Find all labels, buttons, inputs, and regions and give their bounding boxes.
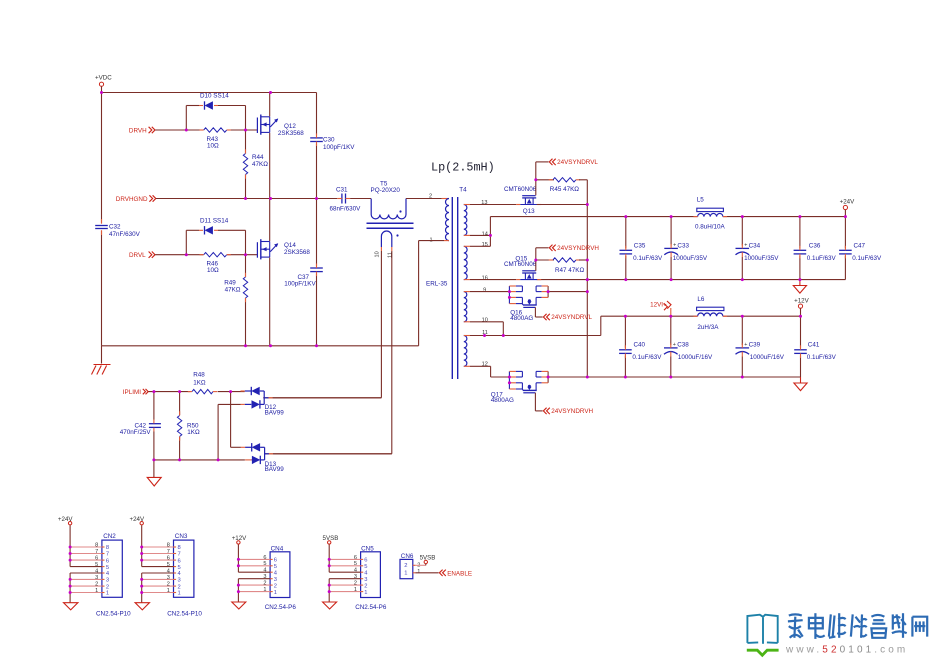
svg-text:100pF/1KV: 100pF/1KV <box>323 144 355 151</box>
svg-text:+: + <box>673 342 676 348</box>
svg-text:8: 8 <box>167 542 170 548</box>
svg-text:CN5: CN5 <box>361 546 374 553</box>
svg-text:47nF/630V: 47nF/630V <box>109 231 141 238</box>
svg-text:CN4: CN4 <box>271 546 284 553</box>
svg-text:1000uF/16V: 1000uF/16V <box>750 354 785 361</box>
svg-text:0.1uF/63V: 0.1uF/63V <box>807 255 837 262</box>
svg-text:5: 5 <box>95 562 98 568</box>
svg-text:2: 2 <box>263 581 266 587</box>
svg-text:R45 47KΩ: R45 47KΩ <box>550 186 580 193</box>
svg-text:www.520101.com: www.520101.com <box>785 644 908 655</box>
svg-text:Q13: Q13 <box>523 208 535 215</box>
svg-text:Lp(2.5mH): Lp(2.5mH) <box>431 161 495 175</box>
svg-text:BAV99: BAV99 <box>265 410 285 417</box>
svg-text:2SK3568: 2SK3568 <box>278 130 304 137</box>
svg-text:DRVH: DRVH <box>129 127 147 134</box>
svg-text:3: 3 <box>95 575 98 581</box>
svg-text:2: 2 <box>274 583 277 589</box>
svg-text:CN3: CN3 <box>175 533 188 540</box>
svg-text:4: 4 <box>106 571 110 577</box>
svg-text:CN2: CN2 <box>103 533 116 540</box>
svg-text:4: 4 <box>178 571 182 577</box>
svg-text:1: 1 <box>274 590 277 596</box>
svg-text:ENABLE: ENABLE <box>447 570 472 577</box>
svg-text:L6: L6 <box>697 296 705 303</box>
svg-text:0.1uF/63V: 0.1uF/63V <box>852 255 882 262</box>
svg-text:8: 8 <box>95 542 98 548</box>
svg-text:5: 5 <box>178 565 181 571</box>
svg-text:24VSYNDRVL: 24VSYNDRVL <box>551 314 592 321</box>
svg-text:6: 6 <box>364 558 367 564</box>
svg-text:CN2.54-P10: CN2.54-P10 <box>167 610 202 617</box>
svg-text:D10 SS14: D10 SS14 <box>200 93 229 100</box>
svg-text:1: 1 <box>178 591 181 597</box>
svg-text:CN2.54-P10: CN2.54-P10 <box>96 610 131 617</box>
svg-text:11: 11 <box>387 252 393 258</box>
svg-text:IPLIMI: IPLIMI <box>123 389 141 396</box>
svg-text:CN2.54-P6: CN2.54-P6 <box>355 604 387 611</box>
svg-text:10: 10 <box>375 251 381 257</box>
svg-text:47KΩ: 47KΩ <box>252 161 268 168</box>
svg-text:3: 3 <box>106 578 109 584</box>
svg-text:5: 5 <box>263 561 266 567</box>
svg-text:4: 4 <box>354 568 357 574</box>
svg-text:+VDC: +VDC <box>95 75 112 82</box>
svg-text:5: 5 <box>106 565 109 571</box>
svg-text:7: 7 <box>106 552 109 558</box>
svg-text:C38: C38 <box>677 342 689 349</box>
svg-text:2: 2 <box>178 584 181 590</box>
svg-text:CN6: CN6 <box>401 553 414 560</box>
svg-text:CMT60N06: CMT60N06 <box>504 186 537 193</box>
svg-text:DRVL: DRVL <box>129 252 146 259</box>
svg-text:7: 7 <box>178 552 181 558</box>
svg-text:1: 1 <box>404 571 407 577</box>
svg-text:2: 2 <box>404 563 407 569</box>
svg-text:1: 1 <box>354 587 357 593</box>
svg-text:2: 2 <box>429 193 432 199</box>
svg-text:4: 4 <box>364 570 368 576</box>
svg-text:47KΩ: 47KΩ <box>225 287 241 294</box>
svg-text:1: 1 <box>263 587 266 593</box>
svg-text:1: 1 <box>364 590 367 596</box>
svg-text:L5: L5 <box>697 197 705 204</box>
svg-text:7: 7 <box>167 549 170 555</box>
svg-text:CMT60N06: CMT60N06 <box>504 261 537 268</box>
svg-text:10: 10 <box>482 318 488 324</box>
svg-text:+24V: +24V <box>840 199 855 206</box>
svg-text:4: 4 <box>167 568 170 574</box>
svg-text:+12V: +12V <box>794 297 809 304</box>
svg-text:T4: T4 <box>459 187 467 194</box>
svg-text:5: 5 <box>274 564 277 570</box>
svg-text:C47: C47 <box>854 243 866 250</box>
svg-text:9: 9 <box>483 288 486 294</box>
svg-text:24VSYNDRVH: 24VSYNDRVH <box>551 408 593 415</box>
svg-text:5: 5 <box>354 561 357 567</box>
svg-text:0.1uF/63V: 0.1uF/63V <box>632 354 662 361</box>
svg-text:1000uF/35V: 1000uF/35V <box>673 255 708 262</box>
svg-text:1: 1 <box>167 588 170 594</box>
svg-text:1000uF/35V: 1000uF/35V <box>744 255 779 262</box>
svg-text:+: + <box>673 242 676 248</box>
svg-text:1KΩ: 1KΩ <box>187 429 200 436</box>
svg-text:C35: C35 <box>634 243 646 250</box>
svg-text:R48: R48 <box>193 372 205 379</box>
svg-text:0.8uH/10A: 0.8uH/10A <box>695 224 726 231</box>
svg-text:2: 2 <box>354 581 357 587</box>
svg-text:R47 47KΩ: R47 47KΩ <box>555 267 585 274</box>
svg-text:4: 4 <box>95 568 98 574</box>
svg-text:4800AG: 4800AG <box>510 315 533 322</box>
svg-text:C36: C36 <box>809 243 821 250</box>
svg-text:ERL-35: ERL-35 <box>426 280 448 287</box>
svg-text:3: 3 <box>364 577 367 583</box>
svg-text:6: 6 <box>95 556 98 562</box>
svg-text:6: 6 <box>354 555 357 561</box>
svg-text:2: 2 <box>167 582 170 588</box>
svg-text:C40: C40 <box>634 342 646 349</box>
svg-text:C33: C33 <box>677 243 689 250</box>
svg-text:R44: R44 <box>252 154 264 161</box>
svg-text:R49: R49 <box>224 280 236 287</box>
svg-text:CN2.54-P6: CN2.54-P6 <box>265 604 297 611</box>
svg-text:8: 8 <box>106 545 109 551</box>
svg-text:3: 3 <box>263 574 266 580</box>
svg-text:1: 1 <box>106 591 109 597</box>
svg-text:14: 14 <box>482 231 488 237</box>
svg-text:0.1uF/63V: 0.1uF/63V <box>633 255 663 262</box>
svg-text:10Ω: 10Ω <box>207 267 219 274</box>
svg-text:100pF/1KV: 100pF/1KV <box>284 281 316 288</box>
svg-text:3: 3 <box>167 575 170 581</box>
svg-text:C32: C32 <box>109 224 121 231</box>
svg-text:1000uF/16V: 1000uF/16V <box>678 354 713 361</box>
svg-text:C31: C31 <box>336 187 348 194</box>
svg-text:4800AG: 4800AG <box>491 397 514 404</box>
svg-text:C30: C30 <box>323 137 335 144</box>
svg-text:2uH/3A: 2uH/3A <box>697 324 719 331</box>
svg-text:2: 2 <box>106 584 109 590</box>
svg-text:24VSYNDRVL: 24VSYNDRVL <box>557 159 598 166</box>
svg-text:Q14: Q14 <box>284 242 296 249</box>
svg-text:D11 SS14: D11 SS14 <box>200 218 229 225</box>
svg-text:6: 6 <box>178 558 181 564</box>
svg-text:+: + <box>744 242 747 248</box>
svg-text:3: 3 <box>178 578 181 584</box>
svg-text:5: 5 <box>167 562 170 568</box>
svg-text:5: 5 <box>364 564 367 570</box>
svg-text:PQ-20X20: PQ-20X20 <box>371 187 401 194</box>
svg-text:C39: C39 <box>749 342 761 349</box>
svg-text:24VSYNDRVH: 24VSYNDRVH <box>557 245 599 252</box>
svg-text:3: 3 <box>274 577 277 583</box>
svg-text:16: 16 <box>482 275 488 281</box>
svg-text:0.1uF/63V: 0.1uF/63V <box>807 354 837 361</box>
svg-text:10Ω: 10Ω <box>207 142 219 149</box>
svg-text:2: 2 <box>364 583 367 589</box>
svg-text:C41: C41 <box>808 342 820 349</box>
svg-text:Q12: Q12 <box>284 123 296 130</box>
svg-text:3: 3 <box>354 574 357 580</box>
svg-text:7: 7 <box>95 549 98 555</box>
svg-text:BAV99: BAV99 <box>265 466 285 473</box>
svg-text:6: 6 <box>274 558 277 564</box>
svg-text:6: 6 <box>167 556 170 562</box>
svg-text:DRVHGND: DRVHGND <box>116 196 148 203</box>
svg-text:2SK3568: 2SK3568 <box>284 249 310 256</box>
svg-text:+: + <box>744 342 747 348</box>
svg-text:6: 6 <box>263 555 266 561</box>
svg-text:6: 6 <box>106 558 109 564</box>
svg-text:C34: C34 <box>749 243 761 250</box>
svg-text:1: 1 <box>95 588 98 594</box>
svg-text:68nF/630V: 68nF/630V <box>330 205 362 212</box>
svg-text:470nF/25V: 470nF/25V <box>120 429 152 436</box>
svg-text:1KΩ: 1KΩ <box>193 379 206 386</box>
svg-text:4: 4 <box>274 570 278 576</box>
svg-text:8: 8 <box>178 545 181 551</box>
svg-text:4: 4 <box>263 568 266 574</box>
svg-text:15: 15 <box>482 242 488 248</box>
svg-text:1: 1 <box>417 569 420 575</box>
svg-text:2: 2 <box>95 582 98 588</box>
